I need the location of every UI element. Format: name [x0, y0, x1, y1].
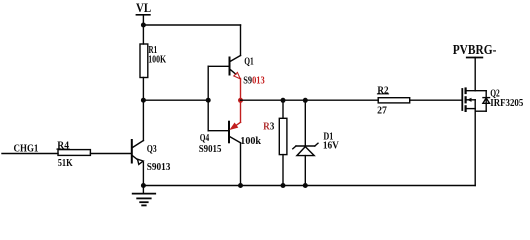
svg-text:PVBRG-: PVBRG-	[453, 42, 497, 57]
wire red emitter net	[236, 79, 241, 126]
svg-text:R2: R2	[377, 85, 388, 96]
power port PVBRG-	[453, 42, 497, 90]
resistor R2	[377, 85, 410, 116]
wire R4 to Q3 base	[91, 153, 132, 155]
svg-text:Q1: Q1	[244, 57, 254, 68]
zener diode D1	[293, 98, 340, 188]
svg-text:R3: R3	[263, 122, 274, 133]
wire Q1/Q4 base tie	[208, 66, 229, 130]
node VL junction	[141, 23, 146, 28]
wire R2 to gate	[410, 99, 462, 101]
wire Q1 collector drop	[240, 25, 242, 56]
transistor Q1	[230, 56, 265, 87]
wire VL node to Q1 collector	[143, 24, 240, 26]
svg-text:IRF3205: IRF3205	[490, 98, 523, 109]
transistor Q4	[199, 122, 241, 186]
svg-text:51K: 51K	[58, 158, 73, 169]
MOSFET Q2	[462, 88, 523, 111]
node red junction	[238, 98, 243, 103]
transistor Q3	[132, 100, 171, 185]
svg-text:Q3: Q3	[147, 144, 157, 155]
svg-text:16V: 16V	[323, 141, 340, 152]
svg-text:R4: R4	[57, 141, 69, 152]
node base-drive junction	[141, 98, 211, 103]
wire bottom rail	[143, 111, 475, 188]
resistor R1	[140, 25, 166, 100]
svg-text:VL: VL	[136, 1, 151, 15]
svg-text:S9013: S9013	[243, 76, 265, 87]
svg-text:Q4: Q4	[200, 133, 209, 144]
ground	[133, 183, 156, 205]
wire main rail to R2	[241, 99, 379, 101]
power port VL	[136, 1, 151, 25]
svg-text:100K: 100K	[148, 55, 166, 66]
wire CHG1 to R4	[2, 153, 58, 155]
svg-text:27: 27	[377, 106, 387, 117]
resistor R3	[263, 98, 287, 188]
svg-text:S9015: S9015	[199, 144, 222, 155]
svg-text:S9013: S9013	[147, 162, 171, 173]
resistor R4	[57, 141, 91, 170]
svg-text:100k: 100k	[240, 136, 261, 147]
